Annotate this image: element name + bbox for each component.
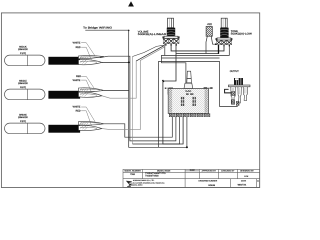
volume pot label <box>138 31 167 37</box>
wire capacitor left leg <box>206 36 207 53</box>
potentiometer TONE <box>216 18 233 46</box>
svg-text:7550: 7550 <box>130 173 136 176</box>
wire neck white to switch (v3) <box>100 56 176 141</box>
label RED (bridge) <box>76 110 92 126</box>
wire volume lug1 to tone lug3 <box>165 44 230 56</box>
fan diagonal to volume lug1 <box>133 45 164 56</box>
pickup NECK stripped wire bundle <box>79 56 105 65</box>
wire volume lug3 long drop <box>163 44 183 144</box>
switch lever <box>187 71 191 78</box>
svg-text:RED: RED <box>76 75 81 78</box>
pickup BRIDGE cable <box>48 125 80 133</box>
title block texts <box>124 169 259 187</box>
jack left prong <box>231 87 236 105</box>
svg-text:BRIDGE: BRIDGE <box>19 113 27 116</box>
capacitor C1 <box>206 27 212 37</box>
company logo <box>126 181 132 187</box>
svg-text:WHITE: WHITE <box>73 41 81 44</box>
svg-text:RED: RED <box>76 46 81 49</box>
svg-text:W9046: W9046 <box>208 184 216 187</box>
svg-text:WHITE: WHITE <box>73 79 81 82</box>
svg-text:500KΩ(A)-LOW: 500KΩ(A)-LOW <box>231 33 253 36</box>
centering mark triangle <box>128 1 134 6</box>
label WHITE (bridge) <box>73 106 95 122</box>
potentiometer VOLUME <box>162 18 179 46</box>
pickup NECK body <box>5 55 46 66</box>
company name <box>131 179 166 186</box>
svg-text:HOSHINO GAKKI CO., LTD.: HOSHINO GAKKI CO., LTD. <box>133 179 155 182</box>
switch terminal strip <box>169 113 210 116</box>
svg-text:MIDDLE: MIDDLE <box>19 79 27 82</box>
svg-text:APPROVED BY: APPROVED BY <box>202 170 217 173</box>
wire jack ground loop <box>159 62 238 148</box>
switch body <box>168 89 208 114</box>
svg-text:(DiMARZIO: (DiMARZIO <box>18 116 28 119</box>
label WHITE (neck) <box>73 41 95 56</box>
svg-text:WHITE: WHITE <box>73 106 81 109</box>
switch center squares <box>186 93 189 94</box>
svg-text:NECK: NECK <box>19 45 27 48</box>
wire middle white to ground bus <box>104 89 129 91</box>
svg-text:DRAWING NUMBER: DRAWING NUMBER <box>198 180 217 183</box>
wire volume lug1 branch to switch common <box>162 55 186 88</box>
output jack J1 <box>225 78 250 105</box>
svg-text:.022: .022 <box>207 23 213 26</box>
svg-text:RED: RED <box>76 110 81 113</box>
tone pot label <box>231 30 253 36</box>
svg-text:OUTPUT: OUTPUT <box>230 70 239 73</box>
pickup MIDDLE body <box>5 89 46 100</box>
label WHITE (middle) <box>73 79 92 92</box>
jack right prong <box>243 87 247 101</box>
border frame <box>1 13 259 188</box>
solder stub tone ground <box>163 80 164 82</box>
wire volume lug3 branch to tone lug1 <box>176 53 219 55</box>
junction dot switch ground <box>186 146 188 148</box>
pickup MIDDLE stripped wire bundle <box>79 88 105 97</box>
wire neck bare to ground bus <box>102 61 129 63</box>
svg-text:DESIGNED BY: DESIGNED BY <box>240 170 254 173</box>
pickup BRIDGE body <box>5 123 46 134</box>
switch slots <box>181 97 196 106</box>
svg-text:71550/71660/71770: 71550/71660/71770 <box>145 172 166 175</box>
svg-text:To Bridge WIRING: To Bridge WIRING <box>83 26 112 29</box>
svg-text:71000/71900: 71000/71900 <box>145 174 159 177</box>
wire middle red to volume (v136) <box>102 46 164 98</box>
pickup MIDDLE label <box>18 79 28 89</box>
svg-text:(DiMARZIO: (DiMARZIO <box>18 82 28 85</box>
pickup BRIDGE label <box>18 113 28 123</box>
pickup NECK label <box>18 45 28 55</box>
wire tone lug1 thick drop <box>218 45 220 54</box>
jack solder X left <box>231 92 239 106</box>
wire bridge red to volume (v140) <box>102 47 164 129</box>
svg-text:'98/07/24: '98/07/24 <box>237 184 247 187</box>
svg-text:CHECKED BY: CHECKED BY <box>221 170 235 173</box>
label RED (neck) <box>76 46 92 60</box>
wire volume lug2 to tone lug2 <box>171 44 224 51</box>
title block <box>123 169 260 187</box>
wire bridge white to switch (v1) <box>104 117 172 138</box>
pickup NECK cable <box>48 57 80 65</box>
wire ground bus v2 (bridge ground) <box>85 30 187 147</box>
wire bus v132 light <box>132 57 134 145</box>
svg-text:GAE: GAE <box>185 89 191 93</box>
junction dot bridge corner <box>128 30 130 32</box>
label RED (middle) <box>76 75 94 88</box>
wire fan dark diagonal <box>136 46 164 61</box>
pickup BRIDGE stripped wire bundle <box>79 121 105 130</box>
wire mid horizontal <box>162 57 220 59</box>
svg-text:500KΩ(A)-LINEAR: 500KΩ(A)-LINEAR <box>138 33 167 36</box>
svg-text:DATE: DATE <box>241 180 247 183</box>
svg-text:(DiMARZIO: (DiMARZIO <box>18 48 28 51</box>
switch mounting bar left <box>165 88 173 90</box>
pickup MIDDLE cable <box>48 91 80 99</box>
switch SW1 5-way <box>165 71 213 116</box>
svg-text:A.M: A.M <box>244 175 248 178</box>
junction dot cap to tone <box>215 43 217 45</box>
jack ground jumper <box>225 89 232 93</box>
svg-text:MODEL NUMBER: MODEL NUMBER <box>124 170 141 173</box>
switch mounting bar right <box>204 87 213 89</box>
jack middle prong <box>238 87 241 103</box>
wire capacitor right leg <box>211 36 217 44</box>
junction dot neck ground <box>128 62 130 64</box>
